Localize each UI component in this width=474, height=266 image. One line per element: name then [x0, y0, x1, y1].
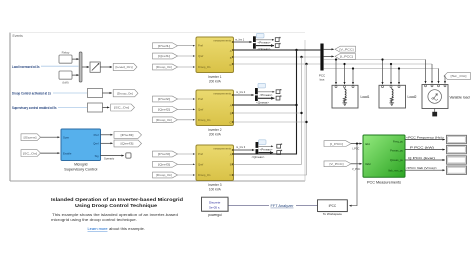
svg-text:Qref: Qref [198, 107, 203, 111]
svg-text:Scenario: Scenario [104, 157, 115, 161]
wire FFT Analyzer to To Workspace [296, 204, 318, 206]
svg-text:To Workspace: To Workspace [323, 212, 342, 216]
svg-text:200 kVA: 200 kVA [209, 133, 222, 137]
svg-text:This example shows the islande: This example shows the islanded operatio… [52, 213, 178, 217]
svg-text:200 kVA: 200 kVA [209, 80, 222, 84]
wire m inverter3 to bus selector [234, 145, 255, 150]
signal viewer icon Q inverter2 [276, 95, 281, 100]
svg-text:B: B [230, 112, 232, 116]
wire PCC frequency to display [405, 135, 445, 139]
display block P [447, 145, 467, 153]
area Events frame [10, 33, 305, 182]
svg-text:[SC_On]: [SC_On] [114, 106, 129, 110]
step source block Relay2 [59, 71, 72, 85]
wire Qmeas inverter1 [256, 46, 274, 51]
svg-text:[Qref3]: [Qref3] [158, 163, 170, 167]
annotation description line 2 [51, 218, 137, 222]
powergui block [202, 197, 229, 217]
svg-text:Discrete: Discrete [209, 201, 221, 205]
wire Droop_On to inverter2 [178, 119, 195, 121]
svg-text:[I_PCC]: [I_PCC] [340, 55, 353, 59]
from tag Droop_On inverter2 [153, 117, 178, 123]
wire drop variable load C [438, 69, 440, 84]
svg-text:Sig: Sig [95, 154, 99, 158]
svg-text:Pref: Pref [94, 133, 99, 137]
subsystem Inverter 3 [196, 145, 234, 192]
signal viewer icon P inverter2 [276, 89, 281, 94]
wire drop load2 B [390, 64, 392, 84]
load block Variable load [422, 85, 470, 109]
svg-text:about this example.: about this example. [109, 227, 145, 231]
svg-text:[Droop_On]: [Droop_On] [117, 91, 133, 95]
wire powergui to FFT Analyzer [228, 204, 269, 206]
svg-text:[Qref3]: [Qref3] [121, 142, 134, 146]
signal viewer icon Q inverter3 [277, 150, 282, 155]
svg-text:A: A [230, 104, 232, 108]
load block Load1 [332, 85, 370, 108]
svg-text:<PCC Vab (Vrms)>: <PCC Vab (Vrms)> [406, 166, 437, 170]
from tag Droop_On inverter3 [153, 172, 178, 178]
svg-text:Qref: Qref [198, 54, 203, 58]
wire phase C inverter3 riser [234, 64, 307, 175]
svg-text:[Load_On]: [Load_On] [116, 65, 133, 69]
svg-text:bus: bus [320, 78, 325, 82]
node A riser junction [295, 49, 297, 51]
annotation title line 1 [51, 197, 183, 203]
wire phase B inverter3 riser [234, 57, 302, 164]
subsystem Inverter 2 [196, 90, 234, 137]
svg-text:[Sc_On]: [Sc_On] [451, 74, 467, 78]
block To Workspace IPCC [318, 200, 349, 216]
from tag Qref inverter1 [153, 53, 178, 59]
subsystem Microgrid Supervisory Control [61, 129, 101, 172]
from tag Qref inverter3 [153, 161, 178, 167]
wire feeder phase A [324, 59, 426, 61]
goto tag I_PCC [335, 54, 356, 60]
wire Relay1 to sum [72, 58, 79, 60]
annotation: Supervisory control enabled at 5s [12, 106, 57, 110]
svg-text:Pref: Pref [198, 44, 203, 48]
step source block Supervisory [88, 103, 103, 112]
svg-text:[Droop_On]: [Droop_On] [156, 118, 172, 122]
wire Qmeas inverter3 [252, 153, 274, 159]
wire Droop_On to inverter3 [178, 174, 195, 176]
svg-text:[V_PCC]: [V_PCC] [340, 47, 354, 51]
display block Q [447, 156, 467, 164]
scope viewer icon inverter2 [258, 83, 266, 88]
annotation description line 1 [52, 213, 178, 217]
svg-text:[Droop_On]: [Droop_On] [156, 65, 172, 69]
subsystem PCC Measurements [363, 135, 405, 184]
svg-text:Qref: Qref [198, 162, 203, 166]
wire PCC Vab to display [405, 166, 445, 170]
svg-text:IPCC: IPCC [329, 204, 337, 208]
wire bus to V_PCC goto [324, 48, 334, 50]
svg-text:C: C [230, 63, 232, 67]
from tag Droop_On inverter1 [153, 64, 178, 70]
wire variable load to ground [434, 109, 436, 113]
goto tag Load_On [113, 63, 137, 70]
bus selector inverter2 [255, 88, 258, 101]
wire Qref to inverter3 [178, 163, 195, 165]
annotation hyperlink [88, 227, 146, 231]
display block Vab [447, 166, 467, 174]
svg-text:Droop_On: Droop_On [198, 173, 211, 177]
from tag Pref inverter2 [153, 96, 178, 102]
svg-text:measurements: measurements [213, 39, 231, 43]
svg-text:Relay: Relay [62, 50, 70, 54]
wire Droop_On to inverter1 [178, 66, 195, 68]
wire step to goto SC_On [103, 106, 110, 108]
goto tag Pref3 [114, 132, 142, 139]
switch block [90, 62, 100, 72]
svg-text:A: A [230, 49, 232, 53]
svg-text:Islanded Operation of an Inver: Islanded Operation of an Inverter-based … [51, 197, 183, 203]
signal viewer icon P inverter3 [277, 144, 282, 149]
svg-text:measurements: measurements [213, 147, 231, 151]
wire SC_On to supervisory control [41, 152, 60, 154]
wire Qmeas inverter2 [256, 98, 274, 104]
svg-text:[Pref2]: [Pref2] [158, 97, 170, 101]
wire Qref to inverter2 [178, 108, 195, 110]
svg-text:(kW): (kW) [62, 81, 68, 85]
annotation: Droop Control activated at 2s [12, 91, 51, 95]
wire phase A inverter3 riser [234, 50, 297, 154]
node load1 A [335, 58, 337, 60]
svg-text:[Qref1]: [Qref1] [158, 54, 170, 58]
wire Relay2 to sum [72, 74, 79, 76]
goto tag Qref3 [114, 140, 142, 147]
bus selector inverter3 [256, 142, 259, 155]
wire Pref out [101, 134, 113, 136]
svg-text:C: C [230, 121, 232, 125]
scope viewer icon inverter1 [257, 33, 265, 38]
node load1 B [343, 63, 345, 65]
terminator Scenario [126, 153, 131, 158]
svg-text:m_Inv 3: m_Inv 3 [236, 145, 246, 149]
wire drop load1 A [335, 60, 337, 85]
svg-text:P PCC (kW): P PCC (kW) [410, 145, 434, 149]
wire Pref to inverter1 [178, 45, 195, 47]
svg-text:Pmeas_pu: Pmeas_pu [390, 149, 403, 153]
node load1 C [352, 67, 354, 69]
svg-text:Inverter 1: Inverter 1 [208, 75, 222, 79]
wire Pmeas inverter3 [259, 146, 274, 151]
from tag variable load control [444, 73, 471, 80]
svg-text:Vabc: Vabc [365, 162, 372, 166]
svg-text:Scen: Scen [63, 135, 70, 139]
wire drop variable load B [431, 64, 433, 83]
svg-text:<Pmeas>: <Pmeas> [260, 148, 274, 151]
node load2 A [381, 58, 383, 60]
wire V_PCC to PCC Measurements [351, 164, 362, 171]
annotation: Load increased at 3s [12, 65, 40, 69]
svg-text:<Qmeas>: <Qmeas> [256, 101, 270, 104]
wire phase B inverter2 [234, 112, 302, 114]
node I_PCC branch [356, 143, 358, 145]
node inverter2 B junction [300, 112, 302, 114]
goto tag V_PCC [335, 46, 356, 52]
svg-text:Supervisory control enabled at: Supervisory control enabled at 5s [12, 106, 57, 110]
signal viewer icon P inverter1 [275, 37, 280, 42]
svg-text:[Droop_On]: [Droop_On] [156, 173, 172, 177]
svg-text:<Pmeas>: <Pmeas> [260, 94, 274, 97]
wire drop load1 C [352, 69, 354, 85]
wire branch to To Workspace [349, 144, 357, 206]
wire Pref to inverter2 [178, 98, 195, 100]
signal viewer icon Q inverter1 [275, 43, 280, 48]
from tag Qref inverter2 [153, 107, 178, 113]
wire drop load2 A [382, 60, 384, 85]
wire phase A inverter1 to bus [234, 49, 321, 51]
wire tag to variable load control port [444, 76, 445, 83]
wire drop load1 B [344, 64, 346, 84]
svg-text:5e-05 s.: 5e-05 s. [209, 205, 220, 209]
goto tag SC_On [111, 104, 135, 111]
svg-text:Supervisory Control: Supervisory Control [64, 168, 97, 172]
goto tag Droop_On [113, 90, 138, 97]
svg-text:Pref: Pref [198, 97, 203, 101]
step source block Droop [88, 89, 103, 98]
svg-text:<Qmeas>: <Qmeas> [252, 156, 266, 159]
wire m inverter2 to bus selector [234, 90, 254, 95]
svg-text:Using Droop Control Technique: Using Droop Control Technique [75, 203, 157, 209]
svg-text:Inverter 2: Inverter 2 [208, 128, 222, 132]
wire m inverter1 to bus selector [234, 37, 252, 42]
from tag I_PCC [324, 141, 351, 147]
svg-text:Freq_pu: Freq_pu [393, 139, 404, 143]
ground [432, 112, 437, 117]
wire annotation line 3 [58, 106, 87, 108]
svg-text:I_PCC: I_PCC [352, 148, 360, 151]
svg-text:Load1: Load1 [361, 95, 370, 99]
svg-text:Droop_On: Droop_On [198, 65, 211, 69]
svg-text:[SC_On]: [SC_On] [23, 151, 37, 155]
scope viewer icon inverter3 [259, 140, 267, 145]
node load2 B [390, 63, 392, 65]
wire feeder phase C [324, 68, 439, 70]
svg-text:[Pref3]: [Pref3] [121, 133, 134, 137]
svg-text:[I_PCC]: [I_PCC] [330, 142, 343, 146]
wire drop load2 C [398, 69, 400, 85]
wire phase C inverter2 [234, 121, 307, 123]
node B riser junction [300, 56, 302, 58]
wire phase A inverter2 [234, 104, 297, 106]
wire switch to goto tag [100, 66, 112, 68]
svg-text:V_PCC: V_PCC [352, 168, 361, 171]
from tag Pref inverter1 [153, 43, 178, 49]
annotation FFT Analyzer link [271, 204, 295, 208]
wire annotation line 1 [41, 65, 79, 67]
svg-text:B: B [230, 163, 232, 167]
svg-text:B: B [230, 56, 232, 60]
svg-text:Events: Events [13, 34, 24, 38]
svg-text:Learn more: Learn more [88, 227, 108, 231]
inverter output port nubs [232, 41, 234, 176]
subsystem Inverter 1 [196, 37, 234, 84]
svg-text:microgrid using the droop cont: microgrid using the droop control techni… [51, 218, 137, 222]
wire Scenario out [101, 156, 124, 161]
node load2 C [398, 67, 400, 69]
svg-text:Inverter 3: Inverter 3 [208, 183, 222, 187]
svg-text:PCC Measurements: PCC Measurements [367, 180, 401, 184]
wire Qref to inverter1 [178, 55, 195, 57]
svg-text:[Scen]: [Scen] [24, 135, 37, 139]
annotation title line 2 [75, 203, 157, 209]
svg-text:[V_PCC]: [V_PCC] [330, 162, 344, 166]
wire drop variable load A [425, 60, 427, 84]
node inverter2 C junction [305, 121, 307, 123]
svg-text:100 kVA: 100 kVA [209, 188, 222, 192]
svg-text:<PCC Frequency (Hz)>: <PCC Frequency (Hz)> [406, 135, 444, 139]
wire feeder phase B [324, 63, 432, 65]
svg-text:Iabc: Iabc [365, 142, 371, 146]
wire annotation line 2 [53, 92, 87, 94]
node C riser junction [305, 63, 307, 65]
svg-text:m_Inv 2: m_Inv 2 [236, 90, 246, 94]
busbar PCC bus [319, 44, 326, 82]
svg-text:Enable: Enable [63, 151, 72, 155]
svg-text:measurements: measurements [213, 92, 231, 96]
wire step to goto Droop_On [103, 92, 112, 94]
svg-text:<Pmeas>: <Pmeas> [258, 41, 272, 44]
wire Pref to inverter3 [178, 153, 195, 155]
wire Pmeas inverter2 [258, 92, 274, 97]
svg-text:C: C [230, 173, 232, 177]
wire P PCC to display [405, 145, 445, 149]
svg-text:Qref: Qref [93, 142, 98, 146]
svg-text:m_Inv 1: m_Inv 1 [235, 37, 245, 41]
svg-text:Variable load: Variable load [450, 95, 470, 99]
svg-text:Droop Control activated at 2s: Droop Control activated at 2s [12, 91, 51, 95]
wire Pmeas inverter1 [256, 40, 274, 45]
svg-text:Vab_rms_pu: Vab_rms_pu [388, 169, 404, 173]
from tag Scenario input [21, 134, 41, 141]
svg-text:[Pref3]: [Pref3] [158, 152, 170, 156]
from tag SC_On input [21, 150, 41, 157]
step source block Relay1 [59, 50, 72, 63]
svg-text:powergui: powergui [208, 213, 222, 217]
wire I_PCC to PCC Measurements [351, 144, 362, 151]
svg-text:Load increased at 3s: Load increased at 3s [12, 65, 40, 69]
svg-text:Qmeas_pu: Qmeas_pu [390, 158, 404, 162]
display block frequency [447, 135, 467, 143]
svg-text:Load2: Load2 [408, 95, 417, 99]
svg-text:[Pref1]: [Pref1] [158, 44, 170, 48]
svg-text:Droop_On: Droop_On [198, 118, 211, 122]
svg-text:FFT Analyzer: FFT Analyzer [271, 204, 295, 208]
wire sum to switch [82, 66, 89, 68]
svg-text:A: A [230, 153, 232, 157]
from tag Pref inverter3 [153, 151, 178, 157]
wire phase C inverter1 to bus [234, 63, 321, 65]
bus selector inverter1 [253, 36, 256, 48]
wire bus to I_PCC goto [324, 55, 334, 57]
from tag V_PCC [324, 161, 351, 167]
node inverter2 A junction [295, 104, 297, 106]
svg-text:[Qref2]: [Qref2] [158, 108, 170, 112]
wire Qref out [101, 142, 113, 144]
wire Q PCC to display [405, 156, 445, 160]
svg-text:Microgrid: Microgrid [74, 163, 87, 167]
wire Scen to supervisory control [41, 136, 60, 138]
svg-text:Pref: Pref [198, 152, 203, 156]
wire phase B inverter1 to bus [234, 56, 321, 58]
sum/mux bar [79, 52, 82, 82]
load block Load2 [379, 85, 417, 108]
svg-text:Q PCC (kvar): Q PCC (kvar) [408, 156, 435, 160]
